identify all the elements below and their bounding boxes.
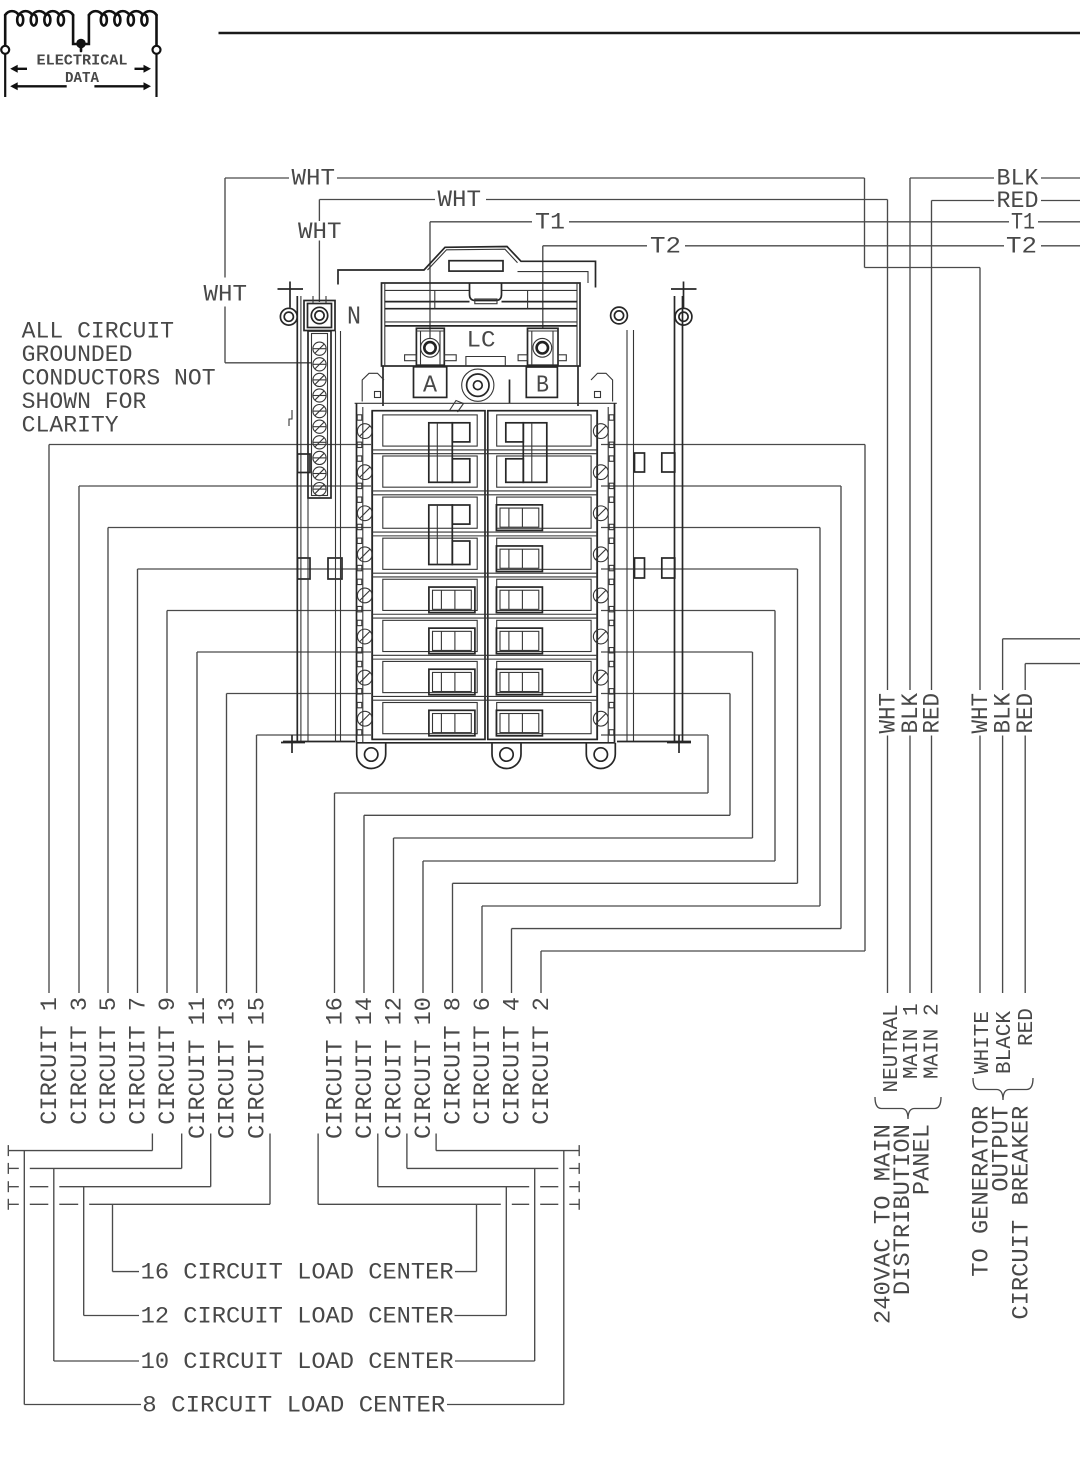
rail screw row 3 (357, 506, 372, 521)
wire WHT top-1 horizontal (225, 177, 289, 179)
svg-text:CIRCUIT 2: CIRCUIT 2 (529, 997, 555, 1125)
leader 16-circuit right (476, 1204, 478, 1271)
leader 10-circuit right (534, 1168, 536, 1361)
row divider 6 (372, 654, 597, 656)
brace main-distribution (875, 1097, 941, 1119)
shield mid lines (385, 321, 577, 323)
terminal circle left (1, 46, 9, 54)
wire generator WHT vertical (979, 268, 981, 691)
svg-text:CIRCUIT 10: CIRCUIT 10 (411, 997, 437, 1139)
chassis center screw (462, 369, 494, 401)
mounting tab x=371.2 (357, 743, 386, 769)
wire T1 horizontal (430, 221, 532, 223)
wire generator BLK entry (1003, 638, 1080, 640)
logo side line left (4, 54, 6, 97)
wire circuit 15 (257, 734, 372, 736)
rail screw row 2 (357, 465, 372, 480)
svg-text:CIRCUIT 6: CIRCUIT 6 (470, 997, 496, 1125)
breaker toggle row 6 left (429, 628, 475, 654)
wire circuit 1 (49, 444, 371, 446)
coil lead left (4, 15, 7, 46)
wire circuit 6 (601, 527, 820, 529)
rail screw row 7 (357, 670, 372, 685)
svg-text:CIRCUIT 7: CIRCUIT 7 (125, 997, 151, 1125)
chassis lever slash (450, 401, 464, 413)
breaker toggle rows1-2 right (2-pole) (523, 423, 547, 483)
svg-text:DATA: DATA (65, 71, 99, 87)
left rail slot A (298, 454, 311, 473)
logo side line right (155, 54, 157, 97)
svg-text:CIRCUIT 16: CIRCUIT 16 (322, 997, 348, 1139)
center joint (73, 15, 89, 44)
wire circuit 7 (138, 568, 372, 570)
left rail circle (280, 308, 297, 325)
shield top band (385, 289, 470, 291)
svg-text:GROUNDED: GROUNDED (22, 342, 133, 368)
wire circuit 12 (601, 651, 753, 653)
svg-text:A: A (423, 373, 438, 400)
svg-text:T1: T1 (1011, 210, 1035, 236)
row divider 1 (372, 449, 597, 451)
breaker toggle row 8 right (496, 710, 542, 736)
rail screw row 2 (593, 465, 608, 480)
arrow bottom-left (10, 82, 18, 90)
breaker assembly bottom line (357, 742, 615, 744)
svg-text:B: B (536, 373, 549, 400)
leader 16-circuit left (112, 1204, 114, 1271)
wire BLK right horizontal (910, 177, 994, 179)
svg-text:PANEL: PANEL (909, 1124, 935, 1195)
wire WHT top-2 horizontal (319, 199, 435, 201)
row divider 2 (372, 490, 597, 492)
svg-text:CIRCUIT 11: CIRCUIT 11 (185, 997, 211, 1139)
arrow mid-right (144, 65, 152, 73)
wire circuit 13 (227, 693, 372, 695)
chassis right ear (591, 373, 613, 401)
breaker columns outline (372, 411, 485, 740)
svg-text:MAIN 1: MAIN 1 (901, 1003, 924, 1079)
svg-text:CIRCUIT 9: CIRCUIT 9 (155, 997, 181, 1125)
electrical-data logo (5, 11, 156, 51)
rail screw row 8 (357, 711, 372, 726)
leader 8-circuit left (23, 1151, 25, 1405)
svg-text:CIRCUIT 4: CIRCUIT 4 (499, 997, 525, 1125)
svg-text:WHT: WHT (438, 187, 482, 213)
leader 12-circuit left (83, 1187, 85, 1316)
mounting tab x=600.8 (586, 743, 615, 769)
wire circuit 2 (601, 444, 865, 446)
breaker toggle row 6 right (496, 628, 542, 654)
row divider 3 (372, 531, 597, 533)
breaker row 4 boxes (383, 538, 477, 569)
chassis tick (509, 380, 511, 404)
leader 10-circuit left (53, 1168, 55, 1361)
arrow bottom-right (144, 82, 152, 90)
neutral bar strip (308, 331, 331, 498)
rail screw row 1 (357, 424, 372, 439)
left rail verticals (296, 296, 298, 742)
breaker toggle row 5 right (496, 587, 542, 613)
cover inner edge right (518, 272, 589, 283)
arrow mid-left (10, 65, 18, 73)
header rule (219, 32, 1080, 35)
inductor coil right (89, 11, 157, 25)
svg-text:CIRCUIT 5: CIRCUIT 5 (96, 997, 122, 1125)
breaker toggle row 5 left (429, 587, 475, 613)
rail screw row 7 (593, 670, 608, 685)
trapezoid inner (428, 249, 518, 270)
breaker row 6 boxes (383, 620, 477, 651)
svg-text:T1: T1 (535, 210, 565, 236)
svg-text:RED: RED (919, 693, 945, 734)
breaker row 8 boxes (383, 703, 477, 734)
row divider 5 (372, 613, 597, 615)
terminal circle right (153, 46, 161, 54)
label box A (414, 367, 447, 398)
wire circuit 9 (167, 610, 371, 612)
svg-text:BLACK: BLACK (994, 1011, 1017, 1074)
wire circuit 4 (601, 485, 841, 487)
wire circuit 14 (601, 693, 730, 695)
right rail bracket cross (671, 288, 697, 290)
breaker row 1 boxes (383, 415, 477, 446)
svg-text:T2: T2 (650, 234, 681, 260)
coil lead right (155, 15, 158, 46)
breaker frame left rail (356, 403, 358, 743)
row divider 7 (372, 695, 597, 697)
svg-text:N: N (347, 302, 361, 332)
inductor coil left (5, 11, 73, 25)
right rail verticals (674, 296, 676, 742)
svg-text:MAIN 2: MAIN 2 (922, 1003, 945, 1079)
right rail slots (635, 453, 645, 472)
svg-text:CIRCUIT 15: CIRCUIT 15 (244, 997, 270, 1139)
svg-text:SHOWN FOR: SHOWN FOR (22, 389, 147, 415)
breaker row 2 boxes (383, 456, 477, 487)
svg-text:WHT: WHT (298, 219, 342, 245)
bracket 10-circuit left (7, 1163, 9, 1174)
row divider 4 (372, 572, 597, 574)
svg-text:T2: T2 (1006, 234, 1037, 260)
brace generator-output (973, 1078, 1033, 1100)
wire WHT-2 vertical into neutral lug (318, 200, 320, 222)
svg-text:CIRCUIT 14: CIRCUIT 14 (352, 997, 378, 1139)
left rail bracket cross (278, 288, 304, 290)
svg-text:CONDUCTORS NOT: CONDUCTORS NOT (22, 366, 216, 392)
svg-text:ALL CIRCUIT: ALL CIRCUIT (22, 319, 174, 345)
rail screw row 8 (593, 711, 608, 726)
wire circuit 3 (79, 485, 371, 487)
wire circuit 10 (601, 610, 775, 612)
shield bottom notch (466, 357, 505, 367)
wire circuit 11 (197, 651, 371, 653)
wire T2 horizontal (543, 245, 647, 247)
breaker toggle row 7 left (429, 669, 475, 695)
svg-text:CIRCUIT 1: CIRCUIT 1 (37, 997, 63, 1125)
breaker frame right rail (614, 403, 616, 743)
breaker B terminal (528, 328, 559, 365)
bracket 12-circuit right (578, 1181, 580, 1192)
leader 8-circuit right (563, 1151, 565, 1405)
bracket 8-circuit right (578, 1145, 580, 1156)
right rail bottom cross (667, 742, 691, 744)
svg-text:WHT: WHT (292, 166, 336, 192)
wire WHT-1 left vertical to neutral bar (224, 178, 226, 278)
wire T2 vertical to breaker B (542, 246, 544, 329)
shield outer (382, 283, 581, 366)
breaker A terminal (416, 328, 444, 365)
bracket 16-circuit right (578, 1199, 580, 1210)
breaker toggle row 8 left (429, 710, 475, 736)
chassis left ear (362, 373, 384, 401)
breaker toggle row 4 right (496, 546, 542, 572)
breaker row 7 boxes (383, 661, 477, 692)
rail screw row 5 (593, 588, 608, 603)
wire circuit 16 (601, 734, 708, 736)
wire circuit 5 (108, 527, 371, 529)
svg-text:CLARITY: CLARITY (22, 413, 119, 439)
rail screw row 1 (593, 424, 608, 439)
rail screw row 3 (593, 506, 608, 521)
bracket 16-circuit left (7, 1199, 9, 1210)
wire RED right horizontal (932, 200, 995, 202)
neutral bar screws (313, 342, 326, 355)
svg-text:ELECTRICAL: ELECTRICAL (37, 54, 128, 70)
bracket 8-circuit left (7, 1145, 9, 1156)
svg-text:16 CIRCUIT LOAD CENTER: 16 CIRCUIT LOAD CENTER (141, 1260, 454, 1286)
wire RED vertical (931, 201, 933, 691)
wire T1 vertical to breaker A (429, 222, 431, 338)
breaker toggle rows1-2 left (2-pole) (429, 423, 453, 483)
right rail circles (611, 307, 628, 324)
rail screw row 4 (593, 547, 608, 562)
wire panel WHT vertical (to main dist.) (887, 200, 889, 691)
breaker row 3 boxes (383, 497, 477, 528)
rail screw row 4 (357, 547, 372, 562)
breaker toggle row 7 right (496, 669, 542, 695)
left rail slot B (298, 558, 311, 579)
shield clip tab (470, 283, 502, 301)
wire WHT-1 right vertical + jog to generator WHT (864, 178, 866, 268)
svg-text:CIRCUIT 13: CIRCUIT 13 (214, 997, 240, 1139)
wire BLK vertical (909, 178, 911, 690)
rail screw row 5 (357, 588, 372, 603)
rail screw row 6 (593, 629, 608, 644)
svg-text:8 CIRCUIT LOAD CENTER: 8 CIRCUIT LOAD CENTER (142, 1393, 445, 1419)
breaker toggle row 3 right (496, 505, 542, 531)
neutral lug (304, 301, 335, 331)
bracket 10-circuit right (578, 1163, 580, 1174)
svg-text:CIRCUIT 8: CIRCUIT 8 (440, 997, 466, 1125)
svg-text:RED: RED (1013, 693, 1039, 734)
chassis sides (382, 366, 384, 406)
svg-text:WHITE: WHITE (972, 1011, 995, 1074)
svg-text:LC: LC (467, 328, 496, 354)
svg-text:WHT: WHT (204, 282, 248, 308)
wire circuit 8 (601, 568, 798, 570)
breaker toggle rows3-4 left (2-pole) (429, 505, 453, 565)
top cover outline (338, 247, 596, 288)
chassis top line (355, 402, 617, 404)
left rail bottom cross (281, 742, 305, 744)
svg-text:10 CIRCUIT LOAD CENTER: 10 CIRCUIT LOAD CENTER (141, 1349, 454, 1375)
neutral bar side lines (335, 331, 337, 742)
svg-text:CIRCUIT BREAKER: CIRCUIT BREAKER (1008, 1106, 1034, 1320)
bracket 12-circuit left (7, 1181, 9, 1192)
wire generator RED entry (1025, 663, 1080, 665)
leader 12-circuit right (505, 1187, 507, 1316)
rail screw row 6 (357, 629, 372, 644)
svg-text:12 CIRCUIT LOAD CENTER: 12 CIRCUIT LOAD CENTER (141, 1304, 454, 1330)
label box B (526, 367, 557, 397)
mounting tab x=506.5 (492, 743, 521, 769)
left rail step (289, 410, 292, 426)
breaker row 5 boxes (383, 579, 477, 610)
svg-text:CIRCUIT 3: CIRCUIT 3 (67, 997, 93, 1125)
svg-text:CIRCUIT 12: CIRCUIT 12 (381, 997, 407, 1139)
svg-text:RED: RED (1016, 1008, 1039, 1046)
